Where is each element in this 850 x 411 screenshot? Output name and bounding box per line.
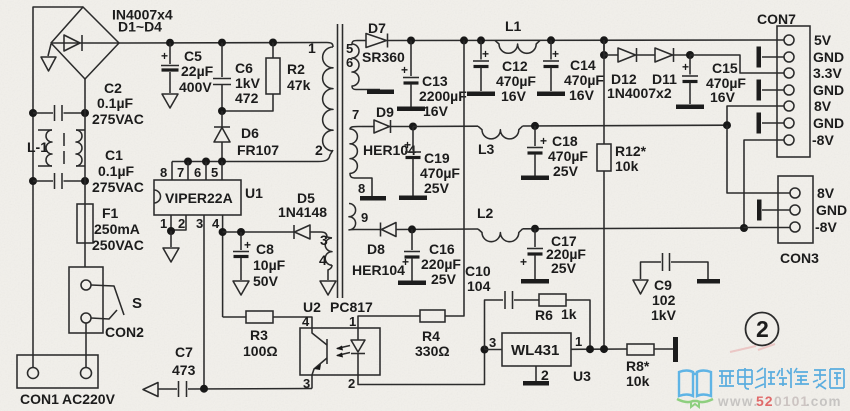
svg-text:22µF: 22µF [181, 63, 214, 79]
resistor R12 10k [597, 40, 611, 349]
wire: DC+ rail bridge to transformer pin1 [119, 43, 333, 48]
inductor L1 [495, 40, 540, 53]
ground bar U3 pin2 [523, 381, 549, 386]
svg-text:10µF: 10µF [253, 257, 286, 273]
svg-text:+: + [520, 255, 527, 269]
svg-text:+: + [482, 47, 489, 61]
wire CON2 to CON1 [85, 323, 87, 368]
node bus pin6 [202, 158, 210, 166]
svg-text:CON2: CON2 [105, 324, 144, 340]
pin 6 [194, 162, 206, 181]
svg-text:16V: 16V [501, 88, 527, 104]
node C6/R2/D6 [218, 107, 226, 115]
shunt regulator U3 WL431 [485, 333, 628, 381]
svg-text:3: 3 [320, 232, 328, 248]
svg-text:1kV: 1kV [651, 307, 677, 323]
node at R2 top [269, 39, 277, 47]
choke L-1 [38, 130, 85, 166]
node C13 [407, 37, 415, 45]
ground bar C19 [399, 196, 427, 201]
resistor R8 10k [627, 344, 674, 355]
svg-text:D6: D6 [241, 125, 259, 141]
svg-text:S: S [132, 295, 142, 312]
svg-text:4: 4 [319, 252, 327, 268]
node C2 left [29, 109, 37, 117]
svg-text:U2: U2 [303, 299, 321, 315]
inductor L2 [478, 229, 523, 242]
wire: drain bus to primary pin2 [172, 150, 333, 162]
ground bar CON3 pin2 [757, 200, 762, 221]
pin 4 [212, 215, 223, 317]
node D12 branch / R12 column [600, 36, 608, 44]
svg-text:4: 4 [302, 314, 310, 329]
svg-text:SR360: SR360 [362, 49, 405, 65]
arrow from bridge left corner [41, 44, 56, 71]
node R12 bottom [600, 345, 608, 353]
svg-text:CON7: CON7 [757, 11, 796, 27]
wire U2 pin3 to ground line [311, 375, 313, 389]
node WL431 ref [481, 346, 489, 354]
diode D7 SR360 [357, 34, 784, 48]
diode D8 HER104 [355, 223, 478, 237]
svg-text:16V: 16V [423, 103, 449, 119]
svg-text:275VAC: 275VAC [92, 111, 144, 127]
wire: left vertical to CON1 [32, 181, 34, 368]
inductor L3 [478, 126, 523, 139]
node pin4 [219, 228, 227, 236]
connector CON2 with switch S [69, 267, 124, 333]
svg-text:50V: 50V [253, 273, 279, 289]
capacitor C1 0.1uF 275VAC [33, 173, 85, 189]
pin 1 [160, 215, 171, 232]
wire CON7 pin7 -8V [744, 140, 784, 228]
svg-text:470µF: 470µF [564, 72, 604, 88]
svg-text:AC220V: AC220V [62, 391, 116, 407]
svg-text:5: 5 [211, 165, 218, 180]
transformer secondary winding pins 7-8 [350, 126, 372, 196]
svg-text:104: 104 [467, 278, 491, 294]
svg-text:F1: F1 [102, 205, 119, 221]
node bus pin7 [184, 158, 192, 166]
svg-text:8: 8 [160, 165, 167, 180]
svg-text:10k: 10k [626, 373, 650, 389]
svg-text:8V: 8V [817, 185, 835, 201]
svg-text:+: + [244, 238, 251, 252]
svg-text:R6: R6 [535, 307, 553, 323]
svg-text:-8V: -8V [812, 132, 834, 148]
svg-text:C7: C7 [175, 344, 193, 360]
svg-text:D9: D9 [376, 104, 394, 120]
svg-text:GND: GND [813, 82, 844, 98]
pin 2 [171, 215, 186, 231]
svg-text:16V: 16V [710, 89, 736, 105]
svg-text:R12*: R12* [615, 143, 647, 159]
svg-text:L2: L2 [477, 205, 494, 221]
svg-text:C18: C18 [552, 133, 578, 149]
svg-text:7: 7 [352, 107, 359, 122]
ground bar R8 [673, 337, 678, 362]
capacitor C7 473 [179, 381, 313, 397]
node C17 [531, 225, 539, 233]
svg-text:-8V: -8V [815, 219, 837, 235]
wire -8V rail right [523, 227, 744, 230]
svg-text:330Ω: 330Ω [415, 343, 450, 359]
wire: left vertical mid [32, 113, 34, 181]
transformer secondary winding pins 5-6 [352, 41, 380, 90]
svg-text:2: 2 [178, 216, 185, 231]
svg-text:C2: C2 [104, 80, 122, 96]
ground bar C14 [537, 92, 565, 97]
svg-text:+: + [552, 47, 559, 61]
svg-text:400V: 400V [179, 79, 212, 95]
capacitor C17 220uF 25V [520, 229, 543, 279]
wire -8V to CON3 pin3 [744, 227, 790, 230]
svg-text:U3: U3 [573, 368, 591, 384]
capacitor C15 470uF 16V [682, 55, 698, 104]
node bus pin5/D6 [218, 158, 226, 166]
watermark book underline [677, 399, 713, 402]
svg-text:8V: 8V [814, 98, 832, 114]
wire C2 row to C1 row right [84, 113, 86, 181]
svg-text:CON3: CON3 [780, 250, 819, 266]
svg-text:0.1µF: 0.1µF [97, 95, 134, 111]
node C14 [547, 36, 555, 44]
bridge rectifier D1-D4 IN4007x4 [51, 7, 119, 79]
svg-text:+: + [682, 60, 689, 74]
svg-text:2: 2 [315, 142, 323, 158]
svg-text:102: 102 [652, 292, 676, 308]
svg-text:470µF: 470µF [548, 148, 588, 164]
wire CON3 pin2 gnd [762, 209, 790, 211]
svg-text:6: 6 [194, 165, 201, 180]
svg-text:1: 1 [308, 40, 316, 56]
ground bar CON7 pin2 [757, 47, 762, 68]
svg-text:9: 9 [361, 210, 368, 225]
optocoupler U2 PC817 [300, 328, 380, 375]
resistor R6 1k [539, 294, 590, 349]
wire 3.3V to CON7 pin3 [690, 55, 784, 73]
svg-text:CON1: CON1 [20, 391, 59, 407]
svg-text:HER104: HER104 [352, 262, 405, 278]
ground bar CON7 pin6 [757, 113, 762, 134]
svg-text:2200µF: 2200µF [419, 88, 467, 104]
svg-text:5: 5 [346, 41, 353, 56]
svg-text:R4: R4 [422, 328, 440, 344]
wire: mains top from bridge to left rail [33, 7, 83, 113]
svg-text:R8*: R8* [626, 358, 650, 374]
node C2 right [81, 109, 89, 117]
capacitor C12 470uF 16V [473, 40, 489, 91]
capacitor C8 10uF 50V [233, 232, 251, 295]
wire CON7 pin5 8V [727, 106, 784, 125]
svg-text:8: 8 [358, 181, 365, 196]
wire CON7 pin2 gnd [762, 56, 784, 58]
ground bar C18 [521, 176, 549, 181]
svg-text:3: 3 [196, 216, 203, 231]
svg-text:0101: 0101 [774, 393, 809, 409]
svg-text:250VAC: 250VAC [92, 237, 144, 253]
ground bar C17 [521, 279, 549, 284]
op IC U1 VIPER22A [154, 180, 241, 215]
svg-text:1: 1 [349, 314, 356, 329]
capacitor C18 470uF 25V [527, 126, 547, 176]
svg-text:10k: 10k [615, 158, 639, 174]
svg-text:C10: C10 [465, 263, 491, 279]
transformer primary winding pins 1-2 [323, 47, 333, 151]
svg-text:VIPER22A: VIPER22A [165, 190, 233, 206]
pin 8 [160, 162, 172, 181]
svg-text:C1: C1 [105, 147, 123, 163]
svg-text:www.: www. [717, 394, 759, 409]
svg-text:C12: C12 [502, 58, 528, 74]
svg-text:L3: L3 [478, 141, 495, 157]
svg-text:+: + [540, 134, 547, 148]
svg-text:472: 472 [235, 90, 259, 106]
svg-text:C14: C14 [570, 57, 596, 73]
svg-text:C15: C15 [712, 60, 738, 76]
svg-text:+: + [404, 138, 411, 152]
svg-text:C13: C13 [422, 73, 448, 89]
svg-text:C9: C9 [654, 277, 672, 293]
svg-text:.com: .com [806, 394, 842, 409]
pin 7 [177, 162, 188, 181]
svg-text:2: 2 [756, 316, 769, 342]
svg-text:2: 2 [348, 376, 355, 391]
connector CON7 [777, 26, 810, 157]
capacitor C6 1kV 472 [213, 43, 231, 111]
pin 3 [196, 215, 204, 389]
ground bar C9 [697, 279, 720, 284]
wire 8V to CON3 pin1 [727, 125, 790, 193]
capacitor C9 102 1kV [633, 253, 708, 294]
node C1 left [29, 177, 37, 185]
svg-text:3.3V: 3.3V [813, 65, 842, 81]
transformer core [338, 24, 343, 298]
svg-text:47k: 47k [287, 77, 311, 93]
diode D6 FR107 [214, 111, 230, 162]
svg-text:3: 3 [303, 376, 310, 391]
ground bar C15 [676, 105, 704, 110]
node C18 [531, 122, 539, 130]
svg-text:D1~D4: D1~D4 [118, 19, 162, 35]
svg-text:+: + [402, 255, 409, 269]
wire bridge bottom to C2 row [84, 79, 86, 113]
svg-text:C6: C6 [235, 60, 253, 76]
node C12 [477, 36, 485, 44]
svg-text:PC817: PC817 [330, 299, 373, 315]
svg-text:C19: C19 [424, 150, 450, 166]
svg-text:5V: 5V [814, 32, 832, 48]
svg-text:1: 1 [160, 216, 167, 231]
svg-text:WL431: WL431 [511, 342, 559, 359]
svg-text:GND: GND [813, 115, 844, 131]
capacitor C2 0.1uF 275VAC [33, 105, 85, 121]
wire 8V rail right [523, 124, 727, 127]
svg-text:250mA: 250mA [94, 221, 140, 237]
circled number 2 [730, 313, 779, 353]
node C16 [408, 225, 416, 233]
svg-text:2: 2 [541, 367, 549, 383]
connector CON1 [17, 355, 98, 388]
wire 5V sense column to R4 [445, 40, 464, 316]
watermark url www.520101.com [717, 393, 842, 409]
svg-text:1kV: 1kV [235, 75, 261, 91]
ground bar C16 [398, 281, 426, 286]
svg-text:473: 473 [172, 362, 196, 378]
svg-text:1: 1 [575, 334, 582, 349]
resistor R3 100ohm [223, 311, 312, 328]
svg-text:25V: 25V [424, 180, 450, 196]
svg-text:220µF: 220µF [421, 256, 461, 272]
node -8V tap [740, 224, 748, 232]
wire 8V rail [413, 125, 478, 127]
svg-text:0.1µF: 0.1µF [98, 163, 135, 179]
svg-text:U1: U1 [245, 185, 263, 201]
watermark book icon [679, 371, 711, 397]
capacitor C5 22uF 400V [161, 43, 179, 108]
svg-text:C8: C8 [256, 241, 274, 257]
resistor R2 47k [222, 43, 280, 112]
ground bar CON7 pin4 [757, 80, 762, 101]
svg-text:275VAC: 275VAC [92, 179, 144, 195]
resistor R4 330ohm [358, 310, 445, 328]
node R4 column top [460, 36, 468, 44]
node at C6 [218, 39, 226, 47]
svg-text:470µF: 470µF [496, 73, 536, 89]
svg-text:1N4007x2: 1N4007x2 [607, 85, 672, 101]
diode D9 HER104 [362, 120, 413, 133]
diode D11 [655, 48, 690, 62]
diode D5 1N4148 [294, 225, 327, 239]
capacitor C16 220uF 25V [402, 229, 420, 280]
svg-text:25V: 25V [551, 260, 577, 276]
ground bar pin6 [367, 90, 394, 95]
capacitor C19 470uF 25V [404, 127, 421, 196]
node C15 [686, 51, 694, 59]
svg-text:C16: C16 [429, 241, 455, 257]
svg-text:R2: R2 [287, 61, 305, 77]
watermark text 家电维修资料网 [719, 368, 844, 389]
svg-text:L1: L1 [505, 18, 522, 34]
svg-text:100Ω: 100Ω [243, 343, 278, 359]
wire CON7 pin4 gnd [762, 89, 784, 91]
wire CON7 pin6 gnd [762, 122, 784, 124]
ground arrow VIPER pins 1-2 [163, 227, 179, 262]
fuse F1 250mA 250VAC [77, 181, 93, 267]
svg-text:GND: GND [816, 202, 847, 218]
svg-text:25V: 25V [553, 163, 579, 179]
node 8V tap [723, 121, 731, 129]
ground arrow aux winding [320, 281, 336, 295]
svg-text:FR107: FR107 [237, 142, 279, 158]
svg-text:D8: D8 [367, 241, 385, 257]
svg-text:3: 3 [489, 335, 496, 350]
ground bar C12 [467, 92, 495, 97]
svg-text:GND: GND [813, 49, 844, 65]
wire pin4 to D5 [223, 231, 294, 233]
svg-text:C5: C5 [184, 48, 202, 64]
svg-text:4: 4 [212, 216, 220, 231]
node D12 branch corner [600, 51, 608, 59]
svg-text:25V: 25V [431, 271, 457, 287]
ground bar pin8 [360, 196, 386, 201]
svg-text:6: 6 [346, 55, 353, 70]
diode D12 [604, 40, 655, 62]
connector CON3 [778, 176, 813, 243]
svg-text:+: + [161, 49, 168, 63]
svg-text:+: + [401, 63, 408, 77]
capacitor C14 470uF 16V [543, 40, 559, 91]
svg-text:D7: D7 [368, 20, 386, 36]
node C1 right [81, 177, 89, 185]
earth arrow bottom left [143, 383, 177, 397]
svg-text:52: 52 [756, 393, 774, 409]
transformer aux winding pins 3-4 [325, 237, 332, 280]
node pin3 ground line [200, 385, 208, 393]
svg-text:1N4148: 1N4148 [278, 204, 327, 220]
ground bar C13 [397, 107, 425, 112]
capacitor C10 104 [485, 291, 540, 350]
capacitor C13 2200uF 16V [401, 41, 419, 107]
svg-text:L-1: L-1 [27, 139, 48, 155]
transformer secondary winding pin 9 [349, 204, 356, 230]
svg-text:16V: 16V [569, 87, 595, 103]
svg-text:470µF: 470µF [420, 165, 460, 181]
node R6 bottom [586, 345, 594, 353]
node C8 [237, 228, 245, 236]
svg-text:1k: 1k [561, 306, 577, 322]
wire U2 pin2 to WL431 ref node [358, 350, 485, 385]
svg-text:R3: R3 [250, 327, 268, 343]
svg-text:7: 7 [177, 165, 184, 180]
pin 5 [211, 162, 222, 181]
node C19 [409, 123, 417, 131]
node at C5 [166, 39, 174, 47]
